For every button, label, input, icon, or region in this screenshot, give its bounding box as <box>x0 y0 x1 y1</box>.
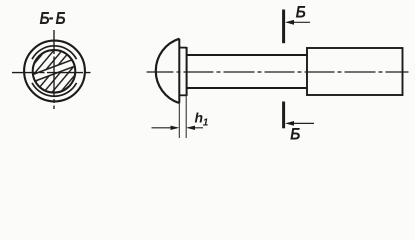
section label Б top <box>296 3 306 21</box>
outer circle (head outline behind plane) <box>24 41 85 102</box>
slot lower edge <box>31 65 80 83</box>
svg-text:Б: Б <box>296 3 306 21</box>
section arrow bottom <box>288 122 314 124</box>
horizontal centerline of section view <box>12 72 91 74</box>
hatching of sectioned shank (inner circle) <box>32 49 76 94</box>
middle circle top arc (head washer face behind plane) <box>32 46 77 59</box>
svg-text:Б: Б <box>56 10 66 29</box>
shank top line <box>187 54 307 56</box>
svg-text:Б: Б <box>290 125 300 143</box>
svg-text:-: - <box>49 9 54 28</box>
screw head dome arc <box>156 39 180 103</box>
slot upper edge <box>28 58 77 76</box>
shank bottom line <box>187 87 307 89</box>
h1 dimension line right with arrow <box>188 127 203 129</box>
section arrow top <box>288 21 310 23</box>
threaded end rectangle <box>307 48 403 95</box>
h1 extension line left <box>178 103 180 138</box>
screwdriver slot (clear band across section) <box>28 58 79 83</box>
head face line <box>178 39 180 104</box>
section label Б bottom <box>290 125 300 143</box>
h1 extension line right <box>185 96 187 138</box>
section plane stub bottom <box>282 102 285 129</box>
head step bottom <box>179 94 186 96</box>
svg-text:h: h <box>195 110 204 126</box>
section plane stub top <box>282 10 285 44</box>
head step top <box>179 47 186 49</box>
section view title Б-Б <box>39 9 65 29</box>
h1 dimension line left with arrow <box>152 127 178 129</box>
main axis centerline of side view <box>147 71 409 73</box>
middle circle bottom arc <box>32 83 77 96</box>
svg-text:1: 1 <box>203 117 209 128</box>
head washer-face line <box>186 47 188 96</box>
inner circle (shank cross-section outline) <box>33 50 76 93</box>
vertical centerline of section view <box>53 30 55 109</box>
